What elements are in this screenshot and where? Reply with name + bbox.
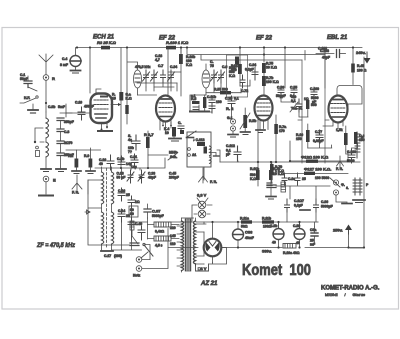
rectifier tube AZ21 (204, 222, 222, 262)
wire: tube V2 legs (160, 120, 171, 134)
resistor R45 (351, 48, 366, 85)
svg-text:0,1µF: 0,1µF (245, 68, 254, 72)
tube V2 EF22 (156, 96, 175, 122)
svg-text:H.F.: H.F. (24, 96, 30, 100)
svg-text:C86: C86 (245, 230, 253, 235)
box IF can 2 (227, 55, 249, 97)
resistor R7b screen EF22-2 (262, 62, 277, 97)
capacitor C81 (130, 154, 138, 169)
svg-text:25: 25 (126, 193, 130, 197)
svg-text:EF 22: EF 22 (256, 36, 273, 42)
ground (antenna coil) (41, 169, 51, 172)
svg-text:R.45: R.45 (357, 64, 364, 68)
capacitor C4 electrolytic (60, 48, 81, 74)
svg-text:5000pF: 5000pF (152, 214, 164, 218)
antenna coil L1 (34, 112, 49, 169)
resistor R57 (206, 88, 241, 95)
svg-text:40mF: 40mF (245, 236, 254, 240)
wire antenna to coil (45, 81, 47, 113)
potentiometer R5b volume (240, 108, 256, 135)
magic eye box MHR (187, 131, 219, 180)
svg-text:1Ω: 1Ω (135, 200, 140, 204)
svg-text:50 pF: 50 pF (117, 176, 126, 180)
oscillator coil assembly L2/L3 (85, 167, 130, 250)
capacitor C19b (128, 134, 140, 154)
svg-text:40: 40 (296, 241, 300, 245)
svg-text:KOMET-RADIO A.-G.: KOMET-RADIO A.-G. (321, 286, 380, 292)
svg-text:ZF = 470,5 kHz: ZF = 470,5 kHz (36, 242, 75, 249)
wire: heater run (132, 207, 193, 240)
MHR switch label (168, 151, 179, 161)
svg-text:4,7: 4,7 (155, 58, 160, 62)
svg-text:R.2: R.2 (68, 154, 73, 158)
tube V1 ECH21 (91, 94, 113, 132)
resistor R3 (97, 40, 117, 49)
svg-text:30 K.Ω: 30 K.Ω (266, 66, 277, 70)
filter cap C86 (233, 222, 254, 247)
wire: trimmer cluster grounds (146, 83, 177, 91)
resistor RAD left (231, 64, 242, 86)
250V arrow (333, 225, 352, 248)
capacitor C103 (316, 49, 346, 60)
wire: EBL21 anode loop (337, 86, 362, 110)
svg-text:R. 2: R. 2 (226, 106, 234, 111)
antenna (39, 54, 53, 75)
wire: tube V1 top connections (96, 89, 101, 93)
svg-text:C.17: C.17 (104, 254, 111, 258)
wire: B+ right vertical (350, 57, 364, 248)
wire: box bottom stubs (298, 119, 329, 121)
ground (osc coil) (101, 243, 139, 258)
svg-text:C.84: C.84 (249, 63, 256, 67)
svg-text:EF 22: EF 22 (159, 36, 176, 42)
svg-text:R.5b: R.5b (249, 119, 256, 123)
trimmer capacitor C13 (117, 170, 135, 183)
ground (cap column) (56, 169, 66, 172)
resistor striped 4.5 (148, 218, 180, 248)
svg-text:100Ω: 100Ω (263, 225, 272, 229)
wire: IF1 bottom (137, 83, 177, 87)
svg-text:K.Ω: K.Ω (126, 97, 132, 101)
striped resistor small left (130, 221, 138, 244)
jack G1 (227, 116, 238, 137)
capacitor C1 (20, 73, 37, 91)
svg-text:EBL 21: EBL 21 (327, 35, 348, 41)
output transformer (353, 178, 369, 203)
wire: V3 plate down (258, 115, 276, 162)
capacitor C3b (225, 96, 239, 109)
svg-text:500: 500 (311, 103, 317, 107)
svg-text:C.77: C.77 (315, 130, 322, 134)
svg-text:C.109: C.109 (310, 87, 319, 91)
resistor right EBL (354, 132, 365, 144)
capacitor C8a (310, 227, 318, 247)
svg-text:8 mF: 8 mF (60, 63, 68, 67)
capacitor C5 (210, 60, 218, 83)
svg-text:C.34: C.34 (170, 65, 177, 69)
svg-text:350pF: 350pF (64, 120, 74, 124)
svg-text:25: 25 (302, 177, 306, 181)
wire: caps to rails (238, 222, 318, 228)
terminal R (43, 75, 55, 81)
jack G2 tone (330, 178, 349, 195)
capacitor C96b (314, 199, 333, 212)
svg-text:F. R.: F. R. (336, 167, 343, 171)
cathode parts tube V1 (111, 92, 132, 124)
resistor R11b (250, 162, 260, 186)
chassis F.R. left (72, 175, 82, 195)
resistor R120 row (290, 155, 348, 163)
capacitor C96 (347, 149, 356, 163)
svg-text:40pF: 40pF (322, 56, 330, 60)
mains terminals (133, 229, 168, 278)
capacitor column C9b etc (48, 105, 74, 168)
power transformer T1 (170, 218, 206, 272)
coil L11 (266, 185, 276, 199)
resistors R71 pair (267, 162, 329, 192)
svg-text:110: 110 (170, 242, 176, 246)
resistor 1.5K EBL (336, 126, 348, 150)
wire: screen to tube2 (168, 72, 181, 96)
box feedback loop (302, 55, 325, 164)
wire: audio bus (220, 161, 360, 163)
speaker P (355, 132, 364, 158)
svg-text:F. R.: F. R. (72, 191, 79, 195)
svg-text:R3 25 K.Ω: R3 25 K.Ω (97, 40, 117, 45)
svg-text:Ф.: Ф. (341, 183, 345, 187)
wire: tube V3 legs (258, 119, 268, 130)
capacitor C84 (245, 63, 258, 80)
svg-text:40: 40 (99, 162, 103, 166)
terminal E (39, 176, 56, 195)
capacitor C45 (169, 172, 179, 180)
svg-text:R.11b: R.11b (262, 217, 271, 221)
svg-text:K.Ω: K.Ω (250, 177, 256, 181)
svg-text:C.102: C.102 (318, 47, 327, 51)
svg-text:00: 00 (130, 212, 134, 216)
svg-text:Komet 100: Komet 100 (242, 262, 311, 279)
svg-text:1 K.Ω: 1 K.Ω (275, 169, 284, 173)
heater 6.3V lamps (192, 193, 212, 223)
resistor R100 (166, 40, 189, 49)
capacitor C102 top right (318, 47, 327, 51)
wire: lower connections (276, 186, 330, 222)
svg-text:Mitlödi / Glarus: Mitlödi / Glarus (325, 293, 365, 297)
svg-text:AZ 21: AZ 21 (200, 281, 218, 287)
filter cap C8b (270, 223, 284, 247)
chassis F.R. right (199, 168, 218, 184)
components left of V3 (191, 94, 222, 113)
EBL21 cathode components (290, 95, 317, 112)
capacitor C8b bottom (117, 156, 132, 166)
capacitor C16 bottom (99, 155, 114, 170)
svg-text:ℓ.: ℓ. (346, 186, 349, 190)
svg-text:R 3,7: R 3,7 (144, 132, 154, 137)
svg-text:Ф12Ω 100 K.Ω: Ф12Ω 100 K.Ω (301, 155, 329, 160)
ground (V3 cathode) (256, 121, 265, 133)
svg-text:K.Ω: K.Ω (229, 74, 235, 78)
mains switch (141, 243, 153, 258)
resistor R7b 100K (262, 76, 279, 86)
svg-text:♪ C.112: ♪ C.112 (193, 138, 205, 142)
box small left of transformer (129, 206, 138, 217)
svg-text:4η: 4η (128, 138, 132, 142)
svg-text:C.81: C.81 (130, 155, 137, 159)
svg-text:100: 100 (216, 100, 222, 104)
wire: grid line ECH21 (66, 148, 101, 150)
capacitor C112 (226, 144, 241, 161)
filter cap C80 (293, 223, 305, 247)
heater wires bottom (203, 222, 205, 264)
resistor R10a striped (283, 244, 300, 256)
tube V4 EBL21 (329, 96, 348, 123)
svg-text:C8a: C8a (310, 228, 316, 232)
svg-text:P: P (366, 183, 369, 187)
svg-text:R: R (52, 76, 55, 81)
capacitor C33 (0, 0, 1, 1)
capacitor C109 (310, 87, 319, 104)
svg-text:C.4: C.4 (62, 57, 67, 61)
svg-text:MHR•: MHR• (169, 151, 179, 155)
svg-text:3Ω70: 3Ω70 (64, 141, 72, 145)
svg-text:100 K.Ω: 100 K.Ω (266, 80, 279, 84)
svg-text:50Ω: 50Ω (241, 225, 248, 229)
IF transformer 1 winding (128, 62, 142, 95)
svg-text:µF: µF (226, 153, 230, 157)
svg-text:ECH 21: ECH 21 (93, 35, 115, 41)
trimmer capacitor C22 (138, 170, 156, 183)
svg-text:48pF: 48pF (148, 176, 156, 180)
heater rail y=222 (196, 217, 318, 229)
svg-text:500: 500 (231, 68, 237, 72)
240V arrow (356, 50, 371, 64)
wires: verticals from top bus (89, 48, 91, 94)
4V heater box (196, 264, 209, 271)
resistor striped 0.4 (148, 222, 180, 234)
svg-text:40: 40 (272, 241, 276, 245)
capacitor C107 (285, 199, 304, 212)
grid resistor R2 V3 (226, 106, 234, 117)
resistor R127 row (283, 167, 348, 176)
wire: misc interconnects (190, 95, 212, 112)
ground bar (tube V2 grid) (190, 111, 209, 113)
capacitor cluster mid (112, 188, 146, 250)
svg-text:150: 150 (296, 137, 302, 141)
capacitor C34 (161, 65, 178, 83)
svg-text:15: 15 (112, 97, 116, 101)
capacitor C93 (276, 86, 286, 99)
svg-text:50µµF: 50µµF (276, 94, 286, 98)
svg-text:Δ1: Δ1 (192, 153, 196, 157)
svg-text:C.40: C.40 (135, 222, 142, 226)
cathode parts tube V2 (162, 121, 193, 141)
svg-text:C.72: C.72 (241, 89, 248, 93)
svg-text:5mF: 5mF (58, 105, 65, 109)
svg-text:200pF: 200pF (169, 176, 179, 180)
svg-text:R.11a: R.11a (240, 217, 249, 221)
ground (tone) (300, 195, 352, 210)
svg-text:100 5000: 100 5000 (315, 176, 329, 180)
svg-text:(200): (200) (114, 254, 122, 258)
svg-text:R.9: R.9 (84, 154, 89, 158)
svg-text:240v.: 240v. (356, 50, 366, 55)
capacitor C85 (290, 86, 297, 99)
wire: AF coupling down (290, 141, 348, 161)
wire: top B+ bus (77, 47, 362, 49)
svg-text:C.7: C.7 (158, 64, 163, 68)
resistor R70 (269, 162, 284, 186)
svg-text:Netz: Netz (133, 274, 140, 278)
resistor R10b (179, 48, 195, 73)
svg-text:6,3 V: 6,3 V (197, 193, 207, 198)
svg-text:R.10a 40Ω: R.10a 40Ω (283, 251, 300, 255)
svg-text:C.97: C.97 (152, 209, 161, 214)
wire: second top rail (187, 48, 325, 61)
svg-text:5000pF: 5000pF (321, 205, 333, 209)
svg-text:100 Ω: 100 Ω (357, 69, 367, 73)
resistor R cathode EBL (296, 124, 310, 148)
resistor R7a (274, 124, 286, 134)
capacitor C77 (313, 130, 324, 143)
svg-text:C.9b: C.9b (48, 105, 55, 109)
wire: AVC bus (95, 158, 165, 168)
svg-text:0,02µF: 0,02µF (313, 139, 324, 143)
wire: AZ21 output loop (210, 248, 227, 265)
svg-text:170: 170 (279, 129, 285, 133)
svg-text:450pF: 450pF (84, 105, 94, 109)
svg-text:C.96: C.96 (321, 200, 328, 204)
wire: tube V4 legs (323, 121, 343, 129)
wire: IF1 to tube V2 (138, 94, 157, 96)
capacitor C10 (66, 101, 94, 121)
svg-text:C.112: C.112 (226, 144, 235, 148)
resistor R2 (68, 150, 81, 174)
wire: B rail bottom (168, 247, 364, 249)
trimmer capacitor C18 (143, 54, 163, 83)
resistor R37 (144, 131, 168, 155)
svg-text:C.8ɛ: C.8ɛ (288, 177, 295, 181)
svg-text:K.Ω: K.Ω (186, 63, 192, 67)
F.R. small right (336, 156, 344, 171)
tube V3 EF22 (255, 96, 273, 121)
svg-text:E: E (53, 178, 56, 183)
svg-text:C.8: C.8 (64, 130, 69, 134)
svg-text:0,4ℓΩ: 0,4ℓΩ (155, 230, 164, 234)
trimmer capacitor C6 (218, 65, 228, 83)
svg-text:Ф127 100 K.Ω.: Ф127 100 K.Ω. (304, 167, 331, 172)
svg-text:150: 150 (359, 138, 365, 142)
maker logo KOMET-RADIO (321, 286, 380, 298)
resistor R9 (84, 150, 95, 174)
capacitor C97 (144, 204, 164, 218)
svg-text:1,5k: 1,5k (336, 128, 343, 132)
svg-text:C.1Ω7: C.1Ω7 (294, 199, 304, 203)
svg-text:380v.: 380v. (262, 249, 272, 254)
svg-text:C.8b: C.8b (117, 157, 124, 161)
svg-text:0,1: 0,1 (234, 97, 239, 101)
switch H.F. (20, 96, 38, 113)
trimmer capacitor C7 (151, 64, 164, 83)
svg-text:250v.: 250v. (333, 228, 343, 233)
svg-text:4,5 ɛ: 4,5 ɛ (155, 244, 163, 248)
svg-text:0,1µF: 0,1µF (294, 204, 303, 208)
svg-text:□4 V: □4 V (198, 266, 207, 271)
IF transformer 2 winding (202, 64, 210, 95)
svg-text:C.: C. (178, 121, 181, 125)
svg-text:75: 75 (210, 64, 214, 68)
svg-text:C.10: C.10 (75, 101, 82, 105)
svg-text:7?: 7? (128, 150, 132, 154)
svg-text:F. R.: F. R. (210, 180, 217, 184)
